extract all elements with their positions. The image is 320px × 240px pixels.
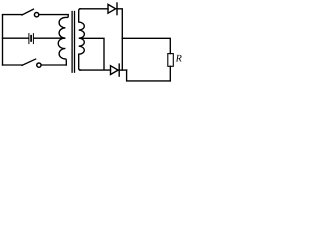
wire resistor bottom lead bbox=[169, 66, 171, 81]
wire D1 cathode to common vertical bbox=[117, 9, 122, 70]
wire D2 cathode to corner bbox=[119, 69, 127, 71]
resistor R body bbox=[168, 54, 174, 67]
wire battery to primary center tap bbox=[34, 37, 64, 39]
diode D2 cathode bar bbox=[118, 64, 120, 76]
wire common node to resistor top bbox=[122, 38, 170, 53]
wire secondary top to diode D1 bbox=[80, 8, 108, 10]
battery B1 middle short thick plate bbox=[30, 36, 32, 41]
wire battery branch bbox=[3, 37, 29, 39]
wire D1 anode stub bbox=[116, 8, 117, 10]
wire D2 apex to bar bbox=[118, 69, 119, 71]
switch S2 blade bbox=[22, 59, 36, 65]
wire bottom branch bbox=[3, 64, 23, 66]
wire S2 to transformer primary bottom bbox=[41, 64, 66, 66]
diode D2 triangle bbox=[111, 66, 119, 75]
transformer core line 1 bbox=[71, 12, 73, 73]
diode D1 triangle bbox=[108, 4, 116, 13]
transformer primary winding L1 bbox=[58, 15, 68, 65]
wire secondary center tap bbox=[80, 38, 104, 69]
wire bottom rail bbox=[127, 70, 171, 81]
switch S2 contact circle bbox=[37, 63, 41, 67]
switch S1 blade bbox=[22, 9, 33, 15]
transformer secondary winding L2 bbox=[79, 9, 85, 70]
battery B1 right long plate bbox=[32, 34, 34, 44]
wire secondary bottom to diode D2 bbox=[80, 69, 111, 71]
battery B1 left long plate bbox=[28, 34, 30, 44]
switch S1 contact circle bbox=[34, 13, 38, 17]
resistor R label bbox=[176, 55, 182, 62]
wire S1 to transformer primary top bbox=[39, 14, 68, 16]
diode D1 cathode bar bbox=[116, 3, 118, 15]
wire left bus vertical bbox=[2, 15, 4, 65]
wire top branch bbox=[3, 14, 23, 16]
transformer core line 2 bbox=[74, 12, 76, 73]
